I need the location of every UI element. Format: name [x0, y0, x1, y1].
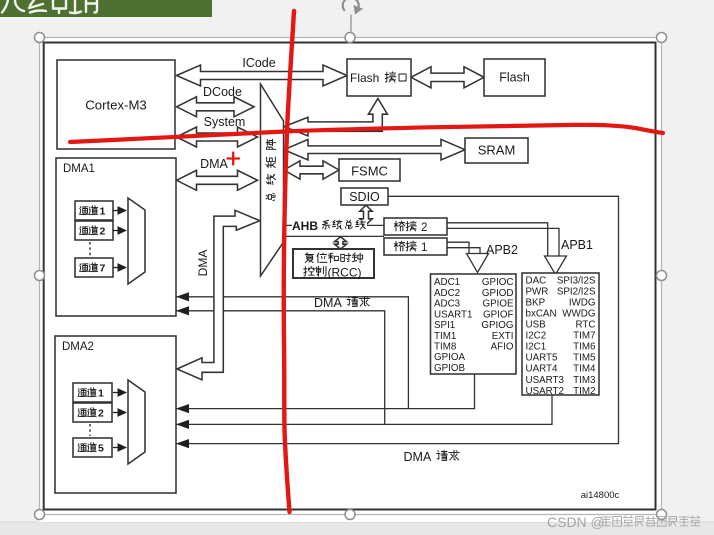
svg-text:Flash: Flash: [499, 71, 530, 85]
svg-text:USB: USB: [526, 320, 547, 331]
svg-text:UART5: UART5: [526, 353, 558, 364]
svg-text:CSDN @: CSDN @: [547, 514, 605, 530]
svg-text:FSMC: FSMC: [351, 164, 388, 179]
svg-text:GPIOG: GPIOG: [481, 320, 513, 331]
svg-text:I2C1: I2C1: [526, 342, 547, 353]
svg-text:APB1: APB1: [561, 238, 593, 252]
svg-text:USART3: USART3: [526, 375, 565, 386]
svg-text:TIM4: TIM4: [573, 364, 596, 375]
svg-text:WWDG: WWDG: [562, 308, 595, 319]
svg-text:AHB: AHB: [292, 219, 318, 233]
svg-text:DMA1: DMA1: [63, 163, 95, 175]
svg-text:I2C2: I2C2: [526, 331, 547, 342]
svg-text:TIM8: TIM8: [434, 342, 457, 353]
svg-text:IWDG: IWDG: [569, 297, 596, 308]
svg-text:USART2: USART2: [526, 386, 564, 397]
svg-text:SRAM: SRAM: [478, 143, 516, 158]
svg-text:GPIOF: GPIOF: [483, 309, 513, 320]
svg-text:SPI3/I2S: SPI3/I2S: [557, 275, 596, 286]
svg-text:2: 2: [98, 407, 104, 419]
svg-text:SPI1: SPI1: [434, 320, 455, 331]
svg-text:Cortex-M3: Cortex-M3: [85, 98, 147, 113]
svg-text:Flash: Flash: [350, 71, 379, 85]
svg-text:7: 7: [100, 262, 106, 274]
svg-text:TIM3: TIM3: [573, 375, 596, 386]
svg-text:TIM2: TIM2: [573, 386, 595, 397]
svg-text:bxCAN: bxCAN: [526, 308, 557, 319]
svg-text:TIM5: TIM5: [573, 353, 596, 364]
svg-text:SDIO: SDIO: [349, 190, 380, 204]
svg-text:USART1: USART1: [434, 309, 472, 320]
svg-text:ADC1: ADC1: [434, 277, 460, 288]
svg-text:1: 1: [98, 387, 104, 399]
svg-text:1: 1: [100, 205, 106, 217]
svg-text:GPIOA: GPIOA: [434, 352, 465, 363]
svg-text:PWR: PWR: [526, 286, 549, 297]
svg-text:BKP: BKP: [526, 297, 546, 308]
svg-text:GPIOD: GPIOD: [482, 288, 514, 299]
svg-text:AFIO: AFIO: [491, 342, 514, 353]
svg-text:UART4: UART4: [526, 364, 558, 375]
svg-text:ADC2: ADC2: [434, 288, 460, 299]
svg-text:DMA: DMA: [200, 157, 228, 171]
svg-text:ICode: ICode: [242, 56, 275, 70]
svg-text:RTC: RTC: [576, 320, 596, 331]
svg-text:SPI2/I2S: SPI2/I2S: [557, 286, 596, 297]
svg-text:GPIOE: GPIOE: [482, 299, 513, 310]
svg-text:ai14800c: ai14800c: [581, 490, 620, 501]
svg-text:DCode: DCode: [203, 85, 242, 99]
svg-text:2: 2: [100, 225, 106, 237]
svg-text:DMA2: DMA2: [62, 341, 94, 353]
svg-text:DAC: DAC: [526, 275, 547, 286]
svg-text:TIM6: TIM6: [573, 342, 596, 353]
svg-text:TIM1: TIM1: [434, 331, 456, 342]
svg-text:System: System: [204, 115, 246, 129]
svg-text:TIM7: TIM7: [573, 331, 595, 342]
svg-text:GPIOB: GPIOB: [434, 363, 465, 374]
svg-text:ADC3: ADC3: [434, 299, 461, 310]
svg-text:(RCC): (RCC): [328, 265, 362, 279]
svg-text:5: 5: [98, 442, 104, 454]
svg-text:DMA: DMA: [404, 450, 432, 464]
svg-text:DMA: DMA: [314, 296, 342, 310]
svg-text:1: 1: [421, 242, 427, 254]
svg-text:GPIOC: GPIOC: [482, 277, 514, 288]
svg-text:APB2: APB2: [486, 243, 518, 257]
svg-text:EXTI: EXTI: [492, 331, 514, 342]
svg-text:2: 2: [421, 222, 427, 234]
svg-text:DMA: DMA: [196, 250, 210, 277]
